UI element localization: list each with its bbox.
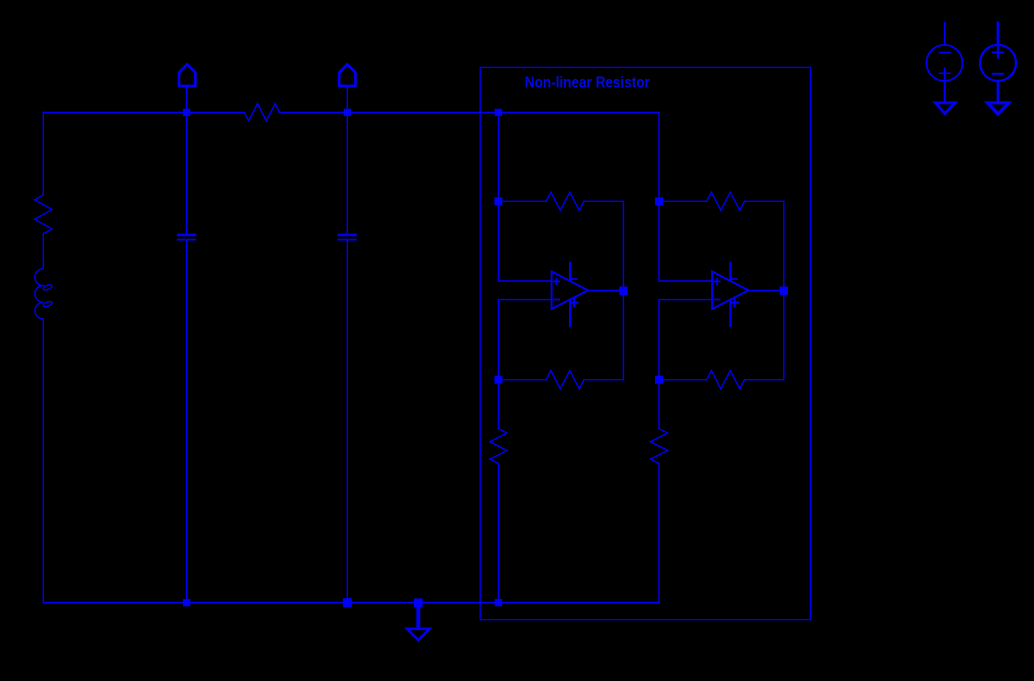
capacitor C2 bbox=[338, 234, 357, 237]
wire U2 output column bbox=[783, 201, 785, 379]
wire rail into box (x=498) bbox=[497, 112, 499, 201]
node (659,380) bbox=[655, 376, 663, 384]
voltage source V2 bbox=[997, 23, 999, 45]
node ground tap (418,602) bbox=[414, 598, 423, 607]
ground V1 bbox=[935, 103, 955, 114]
op-amp U1 V+ power pin bbox=[569, 301, 571, 326]
ground V2 bbox=[987, 103, 1008, 114]
probe P2 bbox=[346, 86, 348, 109]
wire rail C1 bbox=[186, 112, 188, 602]
op-amp U2 V- power pin bbox=[729, 263, 731, 281]
inductor L bbox=[35, 269, 43, 319]
op-amp U1 output wire bbox=[588, 289, 619, 291]
resistor R2 (U1 feedback top) bbox=[498, 192, 623, 210]
voltage source V1 bbox=[944, 23, 946, 45]
capacitor C1 bbox=[177, 234, 196, 237]
wire op-amp U2 - input bbox=[659, 300, 712, 380]
node (347,112) bbox=[344, 109, 351, 116]
node (186,602) bbox=[183, 599, 190, 606]
op-amp U2 plus input mark bbox=[714, 279, 719, 284]
wire rail to U2 (x=659) bbox=[658, 112, 660, 201]
ground (bottom center) bbox=[416, 603, 420, 628]
resistor R5 (U2 feedback top) bbox=[659, 192, 784, 210]
node (498,380) bbox=[494, 376, 502, 384]
svg-text:Non-linear Resistor: Non-linear Resistor bbox=[525, 75, 650, 92]
node (347,602) bbox=[343, 598, 352, 607]
resistor R7 (below U2 node) bbox=[650, 380, 667, 603]
wire rail C2 bbox=[346, 112, 348, 602]
op-amp U1 plus input mark bbox=[554, 279, 559, 284]
wire bottom rail bbox=[43, 602, 659, 604]
wire U1 output column bbox=[622, 201, 624, 379]
wire between R0 and L bbox=[42, 234, 44, 269]
wire left branch upper bbox=[42, 112, 44, 195]
node (498,112) bbox=[495, 109, 502, 116]
node U2 output (784,291) bbox=[780, 287, 788, 295]
op-amp U2 output wire bbox=[749, 289, 780, 291]
op-amp U1 V- power pin bbox=[569, 263, 571, 281]
node (186,112) bbox=[183, 109, 190, 116]
resistor R4 (below U1 node) bbox=[490, 380, 507, 603]
op-amp U2 V+ power pin bbox=[729, 301, 731, 326]
node (659,201) bbox=[655, 197, 663, 205]
resistor R6 (U2 bottom) bbox=[659, 371, 784, 389]
op-amp U2 minus input mark bbox=[714, 299, 719, 301]
op-amp U2 bbox=[712, 272, 748, 310]
resistor R series (top) bbox=[244, 104, 279, 121]
resistor R3 (U1 bottom) bbox=[498, 371, 623, 389]
wire op-amp U1 - input bbox=[498, 300, 551, 380]
op-amp U1 bbox=[552, 272, 588, 310]
box Non-linear Resistor bbox=[480, 67, 810, 619]
node (498,602) bbox=[495, 599, 502, 606]
wire op-amp U1 + input bbox=[498, 201, 551, 281]
wire op-amp U2 + input bbox=[659, 201, 712, 281]
node (498,201) bbox=[494, 197, 502, 205]
resistor R0 (left vertical) bbox=[35, 195, 52, 234]
op-amp U1 minus input mark bbox=[554, 299, 559, 301]
wire top rail bbox=[43, 111, 659, 113]
node U1 output (623,291) bbox=[619, 287, 627, 295]
wire left branch lower bbox=[42, 319, 44, 603]
probe P1 bbox=[186, 86, 188, 109]
